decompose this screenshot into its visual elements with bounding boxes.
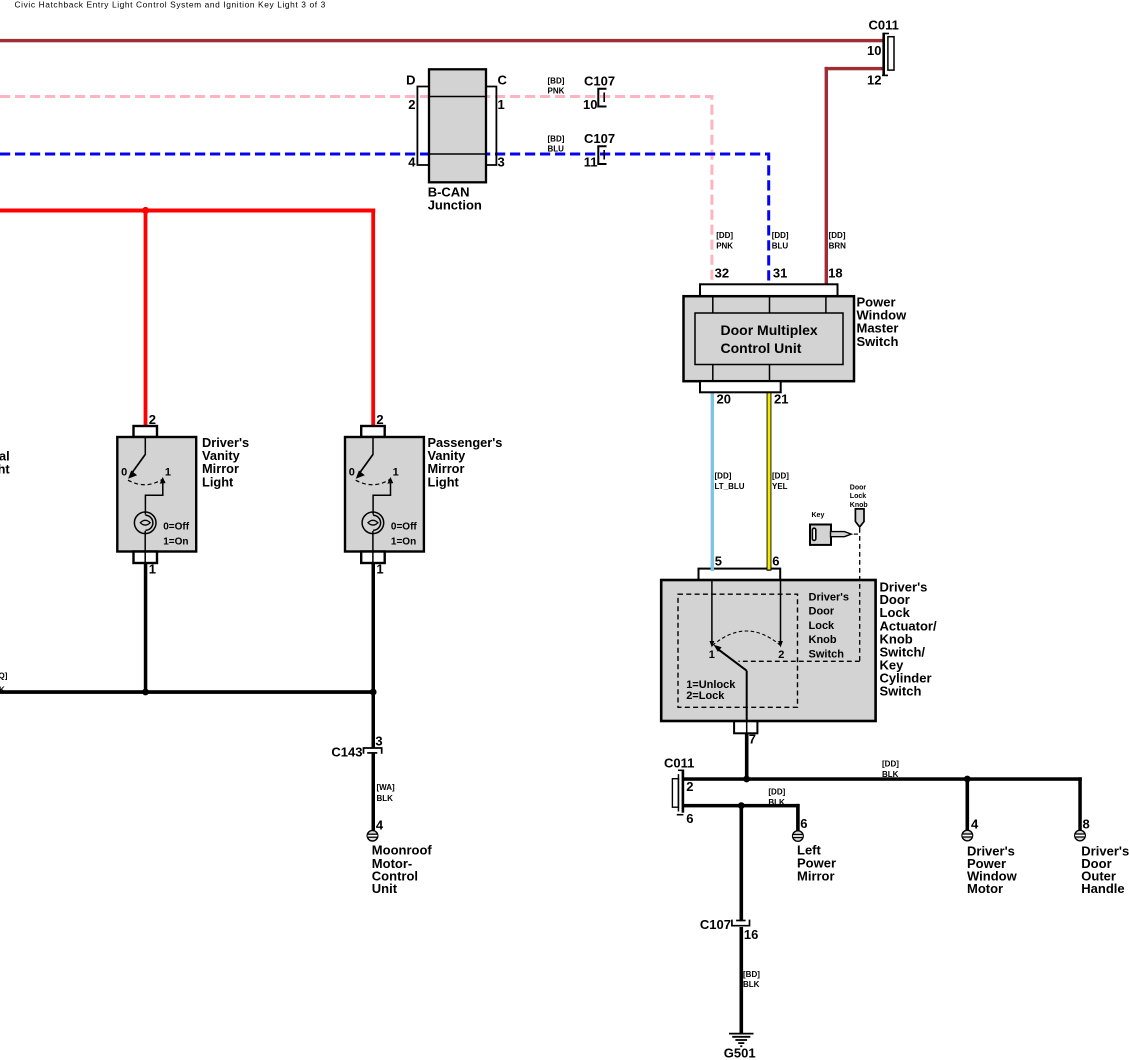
svg-text:2=Lock: 2=Lock [686,690,725,702]
svg-text:BRN: BRN [829,241,847,250]
svg-text:D: D [406,72,415,87]
svg-text:Driver's: Driver's [809,591,850,603]
svg-text:G501: G501 [724,1046,756,1060]
svg-text:0: 0 [121,466,127,478]
svg-text:Door: Door [809,606,835,618]
svg-text:Civic Hatchback Entry Light Co: Civic Hatchback Entry Light Control Syst… [15,0,326,10]
svg-text:3: 3 [375,733,382,748]
svg-text:1: 1 [149,561,156,576]
svg-text:[DD]: [DD] [715,472,732,481]
svg-text:PNK: PNK [716,241,733,250]
svg-text:10: 10 [867,43,881,58]
svg-text:21: 21 [774,391,788,406]
svg-text:1: 1 [393,466,399,478]
svg-text:[BD]: [BD] [743,970,760,979]
svg-text:Key: Key [812,512,825,519]
svg-text:2: 2 [686,779,693,794]
svg-text:Door: Door [850,485,867,492]
svg-text:7: 7 [749,732,756,747]
svg-text:Door Multiplex: Door Multiplex [721,322,818,338]
svg-text:[EQ]: [EQ] [0,671,8,680]
svg-text:[DD]: [DD] [772,472,789,481]
svg-text:[DD]: [DD] [829,231,846,240]
svg-text:C011: C011 [869,17,899,32]
svg-text:Light: Light [202,474,234,489]
svg-text:Lock: Lock [809,620,836,632]
svg-text:Control Unit: Control Unit [721,340,802,356]
svg-text:2: 2 [376,412,383,427]
svg-text:BLK: BLK [0,685,5,694]
svg-text:Mirror: Mirror [797,868,835,883]
svg-text:10: 10 [583,97,597,112]
svg-text:Light: Light [428,474,460,489]
svg-text:LT_BLU: LT_BLU [715,482,745,491]
svg-text:C143: C143 [331,745,362,760]
svg-text:1: 1 [709,649,715,661]
svg-text:C011: C011 [664,755,694,770]
svg-text:1=On: 1=On [163,536,188,547]
svg-text:PNK: PNK [548,87,565,96]
svg-text:BLK: BLK [768,798,785,807]
svg-text:3: 3 [498,154,505,169]
svg-text:Motor: Motor [967,881,1003,896]
svg-text:BLK: BLK [377,794,394,803]
svg-text:BLK: BLK [882,770,899,779]
svg-text:BLK: BLK [743,980,760,989]
svg-text:2: 2 [778,649,784,661]
svg-text:[WA]: [WA] [377,783,396,792]
svg-text:6: 6 [772,553,779,568]
svg-text:Switch: Switch [809,648,845,660]
svg-text:C107: C107 [584,73,615,88]
svg-text:Unit: Unit [372,881,398,896]
svg-text:1=On: 1=On [391,536,416,547]
svg-text:32: 32 [715,266,729,281]
svg-text:0=Off: 0=Off [391,522,418,533]
svg-text:[DD]: [DD] [716,231,733,240]
svg-text:20: 20 [717,391,731,406]
svg-text:BLU: BLU [772,241,789,250]
svg-text:5: 5 [715,553,722,568]
svg-text:[DD]: [DD] [882,760,899,769]
svg-text:8: 8 [1083,816,1090,831]
svg-text:[DD]: [DD] [768,788,785,797]
svg-text:[DD]: [DD] [772,231,789,240]
svg-text:4: 4 [376,817,384,832]
svg-text:C107: C107 [700,917,731,932]
svg-text:1=Unlock: 1=Unlock [686,679,736,691]
svg-text:11: 11 [584,154,598,169]
svg-text:C107: C107 [584,131,615,146]
svg-text:4: 4 [408,154,416,169]
svg-text:6: 6 [686,811,693,826]
svg-text:Handle: Handle [1081,881,1124,896]
svg-text:16: 16 [744,927,758,942]
svg-text:12: 12 [867,73,881,88]
svg-text:18: 18 [828,266,842,281]
svg-text:2: 2 [149,412,156,427]
svg-text:1: 1 [376,561,383,576]
svg-text:1: 1 [498,97,505,112]
svg-text:31: 31 [773,266,787,281]
svg-text:0=Off: 0=Off [163,522,190,533]
svg-text:C: C [498,72,508,87]
svg-text:Lock: Lock [850,493,866,500]
svg-text:ht: ht [0,462,10,477]
svg-text:2: 2 [408,97,415,112]
svg-text:4: 4 [971,816,979,831]
svg-text:6: 6 [800,816,807,831]
svg-text:[BD]: [BD] [548,76,565,85]
svg-text:YEL: YEL [772,482,788,491]
svg-text:0: 0 [349,466,355,478]
svg-text:Knob: Knob [809,634,837,646]
svg-text:BLU: BLU [548,145,565,154]
svg-text:Switch: Switch [857,334,899,349]
svg-text:Junction: Junction [428,198,482,213]
svg-text:[BD]: [BD] [548,135,565,144]
svg-text:1: 1 [165,466,171,478]
svg-text:Knob: Knob [850,502,868,509]
svg-text:Switch: Switch [880,684,922,699]
